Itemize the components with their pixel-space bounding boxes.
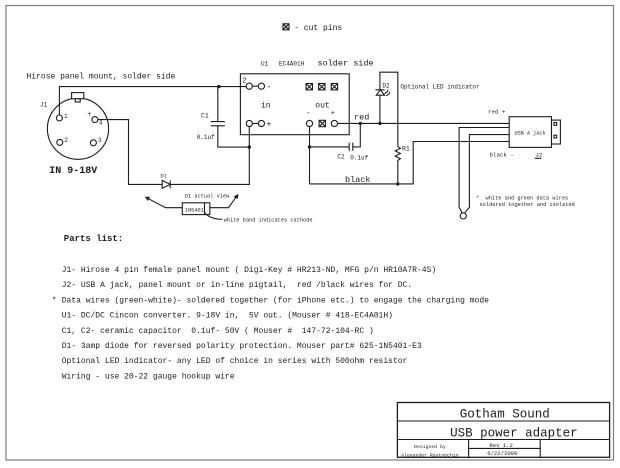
U1 in+ pins [246, 120, 271, 129]
U1 out- pin [306, 110, 312, 127]
svg-text:* white and green data wires: * white and green data wires [476, 196, 568, 202]
J1 pin 3 [90, 137, 102, 146]
arrow right from D1 package [210, 194, 239, 208]
connector J1 (Hirose 4 pin) [40, 93, 109, 160]
svg-text:6/22/2009: 6/22/2009 [487, 450, 517, 457]
connector J2 (USB A jack) [509, 117, 560, 148]
svg-text:1N5401: 1N5401 [185, 207, 204, 213]
wire D1 to U1 in+ [170, 127, 249, 185]
svg-text:in: in [261, 101, 271, 110]
svg-text:+: + [267, 121, 272, 130]
svg-text:Gotham Sound: Gotham Sound [460, 408, 550, 422]
svg-text:4: 4 [99, 120, 103, 127]
LED D2 [375, 83, 390, 96]
D1 package 1N5401 [182, 203, 210, 215]
svg-text:black -: black - [490, 152, 514, 159]
svg-text:Designed by: Designed by [414, 444, 446, 450]
junction C2 left [308, 145, 311, 148]
svg-text:C2: C2 [337, 153, 345, 160]
svg-text:white band indicates cathode: white band indicates cathode [224, 218, 313, 224]
arrow left from D1 package [145, 196, 182, 208]
svg-text:Alexander Rastopchin: Alexander Rastopchin [401, 452, 459, 458]
resistor R1 [395, 146, 410, 184]
svg-text:J1: J1 [40, 102, 48, 109]
title block [397, 403, 609, 458]
svg-text:0.1uf: 0.1uf [197, 134, 215, 141]
data wire green [465, 135, 510, 213]
wire pin4 to D1 [98, 120, 162, 185]
wire black: U1 out- to J2 [310, 142, 510, 184]
U1 out+ pin [331, 110, 338, 127]
data wire white [459, 128, 509, 213]
J1 pin 4 [87, 111, 102, 127]
svg-text:+: + [331, 110, 335, 118]
capacitor C2 [310, 123, 369, 161]
svg-text:D1 actual view: D1 actual view [185, 193, 230, 199]
U1 cut pins top row [306, 84, 338, 90]
svg-text:0.1uf: 0.1uf [350, 155, 368, 162]
svg-text:out: out [315, 101, 329, 110]
junction C1 top [217, 85, 220, 88]
svg-text:D2: D2 [382, 83, 390, 90]
svg-text:- cut pins: - cut pins [294, 24, 342, 33]
capacitor C1 [197, 87, 250, 148]
svg-text:U1: U1 [261, 61, 269, 68]
solder junction isolated node [460, 213, 466, 219]
svg-text:J1- Hirose 4 pin female panel: J1- Hirose 4 pin female panel mount ( Di… [62, 266, 436, 275]
junction C2 to red [359, 122, 362, 125]
svg-text:Parts list:: Parts list: [64, 234, 123, 244]
parts list data wires line [52, 296, 489, 305]
note: white band indicates cathode [205, 213, 313, 224]
wire D2 branch to R1 [380, 72, 398, 146]
svg-text:J2: J2 [535, 152, 542, 159]
svg-text:D1: D1 [160, 173, 167, 180]
label J2 [535, 152, 543, 159]
svg-text:+: + [87, 111, 91, 119]
wire pin1 to U1 in- [59, 87, 246, 115]
diode D1 [160, 173, 170, 189]
junction D2 branch [378, 122, 381, 125]
svg-text:Rev 1.2: Rev 1.2 [489, 442, 513, 449]
svg-text:red +: red + [488, 108, 506, 115]
svg-text:2: 2 [242, 78, 246, 86]
svg-text:U1- DC/DC Cincon converter. 9-: U1- DC/DC Cincon converter. 9-18V in, 5V… [62, 312, 393, 321]
junction R1 to black [396, 182, 399, 185]
svg-text:-: - [267, 83, 272, 92]
svg-text:black: black [345, 175, 371, 185]
svg-text:red: red [354, 113, 369, 123]
note: data wires soldered [476, 196, 575, 208]
svg-text:EC4A01H: EC4A01H [279, 61, 305, 68]
wire red: U1 out+ to J2 [338, 122, 510, 124]
svg-text:Optional LED indicator- any LE: Optional LED indicator- any LED of choic… [62, 357, 408, 366]
svg-text:*: * [52, 296, 57, 305]
svg-text:C1, C2- ceramic capacitor 0.1: C1, C2- ceramic capacitor 0.1uf- 50V ( M… [62, 327, 374, 336]
svg-text:soldered together and isolated: soldered together and isolated [480, 202, 575, 208]
legend: cut pins symbol [283, 24, 289, 30]
svg-text:3: 3 [98, 137, 102, 144]
svg-text:R1: R1 [402, 146, 410, 153]
J1 pin 1 [56, 113, 68, 121]
svg-text:Optional LED indicator: Optional LED indicator [400, 84, 480, 91]
DC/DC converter U1 [240, 61, 349, 135]
svg-text:-: - [306, 110, 310, 118]
svg-text:solder side: solder side [318, 58, 374, 68]
title: designed by [401, 444, 459, 459]
wire U1 out- to black net [309, 127, 311, 184]
svg-text:2: 2 [64, 137, 68, 144]
svg-text:USB power adapter: USB power adapter [450, 427, 578, 441]
svg-text:Data wires (green-white)- sold: Data wires (green-white)- soldered toget… [62, 296, 489, 305]
svg-text:Hirose panel mount, solder sid: Hirose panel mount, solder side [27, 72, 176, 81]
J1 pin 2 [57, 137, 69, 145]
svg-text:1: 1 [64, 113, 68, 120]
title: revision [487, 442, 517, 457]
U1 in- pins [246, 83, 271, 92]
U1 out cut pin [319, 120, 325, 126]
svg-text:C1: C1 [201, 113, 209, 120]
svg-text:IN 9-18V: IN 9-18V [49, 166, 97, 177]
svg-text:Wiring - use 20-22 gauge hooku: Wiring - use 20-22 gauge hookup wire [62, 372, 235, 381]
svg-text:D1- 3amp diode for reversed po: D1- 3amp diode for reversed polarity pro… [62, 342, 422, 351]
junction C1 bottom [248, 145, 251, 148]
svg-text:USB A jack: USB A jack [515, 131, 546, 137]
svg-text:J2- USB A jack, panel mount or: J2- USB A jack, panel mount or in-line p… [62, 281, 412, 290]
